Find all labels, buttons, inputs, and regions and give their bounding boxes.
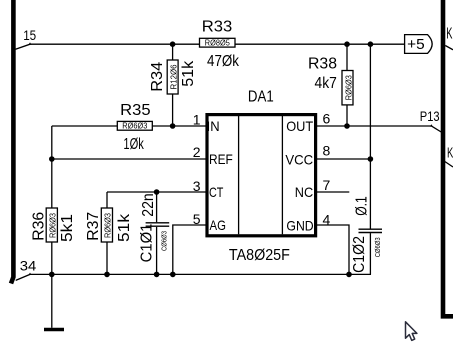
resistor R34 xyxy=(149,60,197,94)
wire REF row xyxy=(52,158,207,160)
svg-text:RØ6Ø3: RØ6Ø3 xyxy=(104,212,113,238)
wire R38 vertical xyxy=(346,44,348,126)
wire ground stem xyxy=(51,274,53,327)
svg-text:Ø.1: Ø.1 xyxy=(354,196,371,216)
svg-text:IN: IN xyxy=(207,118,220,134)
svg-text:RØ6Ø3: RØ6Ø3 xyxy=(344,75,353,101)
wire C102 upper vertical xyxy=(369,44,371,228)
resistor R37 xyxy=(85,208,133,242)
resistor R36 xyxy=(31,208,77,242)
svg-text:R12Ø6: R12Ø6 xyxy=(169,64,178,90)
svg-text:34: 34 xyxy=(20,257,37,273)
junction rail-R36 xyxy=(49,272,55,278)
wire net 34 entry xyxy=(16,274,30,280)
junction A-C102 xyxy=(368,41,374,47)
power +5 symbol xyxy=(405,35,433,54)
tick 15 bend xyxy=(29,42,32,44)
resistor R38 xyxy=(308,55,353,105)
wire C101 upper xyxy=(156,192,158,222)
wire pin1 row xyxy=(52,125,207,127)
wire OUT to P13 xyxy=(316,126,443,133)
svg-text:TA8Ø25F: TA8Ø25F xyxy=(229,247,290,264)
svg-text:4: 4 xyxy=(323,211,331,227)
tick 34 bend xyxy=(29,273,32,275)
junction REF-left xyxy=(49,156,55,162)
svg-text:R36: R36 xyxy=(31,212,48,241)
wire left vertical xyxy=(51,126,53,274)
junction rail-AG xyxy=(170,272,176,278)
junction pin1-R34 xyxy=(170,123,176,129)
svg-text:RØ6Ø3: RØ6Ø3 xyxy=(49,212,58,238)
svg-text:R34: R34 xyxy=(149,62,166,92)
wire AG xyxy=(173,225,207,274)
svg-text:5: 5 xyxy=(193,211,201,227)
mouse cursor xyxy=(406,322,417,341)
svg-text:RØ6Ø3: RØ6Ø3 xyxy=(122,122,148,131)
junction CT-C101 xyxy=(154,189,160,195)
svg-text:RØ8Ø5: RØ8Ø5 xyxy=(205,39,231,48)
svg-text:1: 1 xyxy=(193,112,201,128)
wire CT row xyxy=(107,191,207,193)
svg-text:+5: +5 xyxy=(407,36,425,53)
wire R34 vertical xyxy=(172,44,174,126)
svg-text:CØ6Ø3: CØ6Ø3 xyxy=(375,237,382,257)
svg-text:K: K xyxy=(447,144,453,161)
svg-text:47Øk: 47Øk xyxy=(207,53,240,70)
svg-text:NC: NC xyxy=(295,184,313,200)
svg-text:CØ6Ø3: CØ6Ø3 xyxy=(162,231,169,251)
tick P13 bend xyxy=(430,124,433,126)
junction OUT-R38 xyxy=(344,123,350,129)
svg-text:22n: 22n xyxy=(140,193,157,217)
junction VCC-C102 xyxy=(368,156,374,162)
ground xyxy=(44,328,64,331)
svg-text:C1Ø1: C1Ø1 xyxy=(139,224,156,263)
svg-text:51k: 51k xyxy=(180,60,197,87)
svg-text:4k7: 4k7 xyxy=(315,75,337,92)
svg-text:R38: R38 xyxy=(308,55,337,72)
svg-text:R35: R35 xyxy=(120,102,150,119)
wire VCC row xyxy=(316,158,371,160)
wire K stub bottom xyxy=(445,162,453,168)
svg-text:1Øk: 1Øk xyxy=(123,136,144,153)
wire C102 lower xyxy=(369,233,371,274)
bus left xyxy=(11,0,13,284)
svg-text:OUT: OUT xyxy=(286,118,313,134)
op-amp U1 / IC DA1 body xyxy=(207,88,316,264)
svg-text:R33: R33 xyxy=(202,19,233,36)
wire GND pin4 xyxy=(316,225,350,274)
svg-text:2: 2 xyxy=(193,144,201,160)
wire K stub top xyxy=(445,46,453,50)
resistor R35 xyxy=(117,102,152,153)
svg-text:P13: P13 xyxy=(420,108,440,124)
resistor R33 xyxy=(200,19,240,70)
junction rail-GND xyxy=(346,272,352,278)
svg-text:3: 3 xyxy=(193,178,201,194)
svg-text:DA1: DA1 xyxy=(248,88,274,105)
capacitor C102 xyxy=(351,196,382,273)
svg-text:C1Ø2: C1Ø2 xyxy=(351,236,368,273)
svg-text:7: 7 xyxy=(323,177,331,193)
svg-text:6: 6 xyxy=(323,110,331,126)
svg-text:VCC: VCC xyxy=(285,151,313,167)
svg-text:AG: AG xyxy=(210,217,226,233)
bus right xyxy=(443,0,453,316)
junction rail-R37 xyxy=(104,272,110,278)
capacitor C101 xyxy=(139,193,170,262)
wire net 15 entry xyxy=(16,44,405,49)
svg-text:R37: R37 xyxy=(85,212,102,241)
junction A-R34 xyxy=(170,41,176,47)
wire R37 vertical xyxy=(106,192,108,274)
wire C101 lower xyxy=(156,227,158,275)
svg-text:K: K xyxy=(446,26,452,43)
svg-text:5k1: 5k1 xyxy=(59,214,76,242)
wire NC stub xyxy=(316,191,350,193)
svg-text:CT: CT xyxy=(209,184,224,200)
svg-text:REF: REF xyxy=(209,151,233,167)
svg-text:51k: 51k xyxy=(116,213,133,242)
svg-text:15: 15 xyxy=(23,27,36,43)
junction A-R38 xyxy=(344,41,350,47)
junction rail-C101 xyxy=(154,272,160,278)
svg-text:8: 8 xyxy=(323,142,331,158)
svg-text:GND: GND xyxy=(286,218,313,234)
wire ground rail xyxy=(30,273,371,275)
